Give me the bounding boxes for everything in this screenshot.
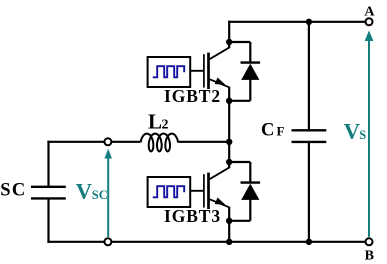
- inductor L2: [141, 134, 179, 152]
- svg-text:F: F: [277, 124, 285, 139]
- wire main vertical emitter IGBT2 to collector IGBT3: [228, 87, 230, 168]
- svg-text:2: 2: [162, 118, 169, 133]
- IGBT3 gate driver box: [148, 177, 191, 207]
- wire top rail: [228, 21, 365, 23]
- diode D2 (antiparallel with IGBT2): [228, 42, 260, 101]
- svg-text:C: C: [261, 121, 274, 141]
- node VSC top terminal: [104, 138, 111, 145]
- arrow V_S: [365, 30, 374, 237]
- capacitor SC: [31, 187, 66, 199]
- junction dots: [226, 19, 312, 245]
- IGBT2 emitter arrowhead: [215, 78, 226, 85]
- svg-text:V: V: [344, 119, 360, 144]
- node IGBT3 collector junction: [226, 159, 232, 165]
- svg-text:V: V: [76, 179, 92, 204]
- svg-text:L: L: [148, 110, 162, 134]
- wire mid rail left of inductor: [47, 141, 140, 143]
- svg-text:C: C: [12, 181, 25, 201]
- wire mid rail right of inductor: [179, 141, 230, 143]
- svg-text:IGBT3: IGBT3: [164, 206, 221, 226]
- IGBT2 gate lead: [190, 70, 204, 72]
- diode D3 (antiparallel with IGBT3): [228, 162, 260, 221]
- transistor IGBT2: [204, 47, 230, 89]
- node bottom rail junction: [226, 239, 232, 245]
- transistor IGBT3: [204, 167, 230, 209]
- wire main vertical collector IGBT2: [228, 21, 230, 48]
- node bottom rail C_F junction: [306, 239, 312, 245]
- node IGBT3 emitter junction: [226, 218, 232, 224]
- svg-text:IGBT2: IGBT2: [164, 86, 221, 106]
- wire left loop vertical bottom: [47, 198, 49, 243]
- svg-text:S: S: [0, 181, 10, 201]
- svg-text:SC: SC: [92, 188, 108, 202]
- wire C_F branch top: [308, 22, 310, 131]
- svg-text:B: B: [365, 249, 374, 264]
- wire left loop vertical top (SC to mid wire): [47, 141, 49, 187]
- IGBT3 emitter arrowhead: [215, 198, 226, 205]
- wire main vertical emitter IGBT3 to bottom rail: [228, 207, 230, 242]
- wire C_F branch bottom: [308, 142, 310, 242]
- node VSC bottom terminal: [104, 238, 111, 245]
- node mid junction with L2: [226, 139, 232, 145]
- IGBT2 gate pulse waveform: [153, 66, 185, 77]
- wire bottom rail: [47, 241, 365, 243]
- node B terminal: [366, 238, 373, 245]
- IGBT3 gate pulse waveform: [153, 186, 185, 197]
- arrow V_SC: [104, 149, 112, 237]
- IGBT2 gate driver box: [148, 57, 191, 87]
- svg-text:S: S: [359, 128, 366, 142]
- capacitor C_F: [292, 130, 327, 142]
- svg-text:A: A: [364, 5, 375, 20]
- node IGBT2 collector junction: [226, 39, 232, 45]
- IGBT3 gate lead: [190, 190, 204, 192]
- node A terminal: [366, 18, 373, 25]
- node IGBT2 emitter junction: [226, 98, 232, 104]
- open terminal circles: [104, 18, 372, 245]
- node top rail C_F junction: [306, 19, 312, 25]
